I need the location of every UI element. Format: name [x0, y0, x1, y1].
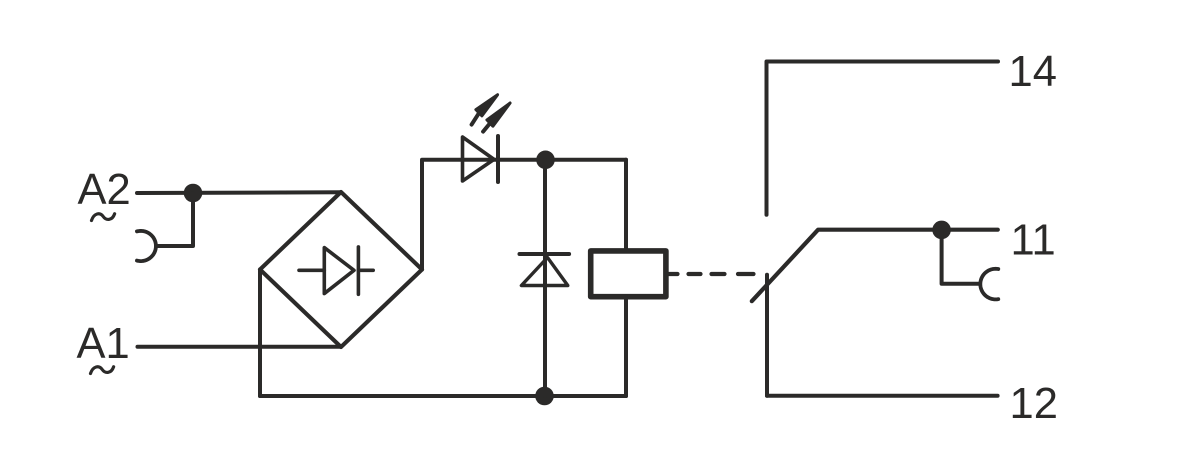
LED: emission arrow 1 tail [472, 113, 479, 124]
wire A2 lead to bridge top vertex [137, 190, 341, 195]
mechanical link dash 2 [689, 272, 701, 276]
wire 11 clamp stub [942, 230, 980, 284]
node bottom junction dot [535, 387, 554, 406]
diode inside bridge: triangle [324, 248, 354, 294]
LED: cathode bar [496, 136, 500, 182]
bridge rectifier diamond [260, 192, 422, 347]
terminal label 12 [1010, 380, 1058, 428]
svg-text:A2: A2 [78, 166, 131, 214]
contact common pole leg from 12 [765, 275, 769, 396]
relay coil K1 [591, 251, 666, 297]
wire terminal 12 line [767, 394, 998, 398]
freewheel diode: triangle [521, 258, 567, 286]
clamp contact at A2 (open arc) [137, 231, 156, 261]
wire bridge plus leg up from right vertex [422, 160, 626, 270]
svg-text:12: 12 [1010, 380, 1058, 428]
svg-text:A1: A1 [77, 320, 130, 368]
mechanical link dash 3 [712, 272, 725, 276]
contact movable lever and terminal 11 line [752, 230, 998, 302]
svg-text:11: 11 [1011, 216, 1056, 264]
AC tilde under A2 [92, 214, 115, 221]
wire bottom rail [260, 394, 626, 398]
node A2 junction dot [184, 184, 203, 203]
LED: triangle [463, 137, 495, 181]
node 11 junction dot [932, 221, 951, 240]
node top junction dot [536, 151, 555, 170]
LED: emission arrow 2 head [487, 103, 510, 126]
wire terminal 14 line and NO fixed contact leg [767, 62, 999, 215]
wire bridge minus leg down from left vertex [258, 270, 262, 397]
mechanical link dash 4 [738, 272, 754, 276]
mechanical link dashed line [668, 272, 678, 276]
wire A1 lead to bridge bottom vertex [138, 345, 342, 349]
wire coil top leg [624, 160, 628, 251]
LED: emission arrow 2 tail [483, 124, 490, 132]
svg-text:14: 14 [1009, 48, 1057, 96]
wire freewheel diode branch vertical [543, 160, 547, 396]
terminal label 11 [1011, 216, 1056, 264]
diode inside bridge: cathode bar [357, 247, 361, 294]
freewheel diode: cathode bar [520, 252, 570, 256]
wire coil bottom leg [624, 297, 628, 396]
diode inside bridge: anode lead [299, 268, 324, 272]
diode inside bridge: cathode lead [358, 268, 373, 272]
terminal label A2 [78, 166, 131, 214]
LED: emission arrow 1 head [476, 95, 498, 116]
clamp contact at 11 (open arc) [980, 269, 998, 300]
wire A2 clamp stub [156, 193, 193, 246]
AC tilde under A1 [91, 367, 114, 374]
terminal label 14 [1009, 48, 1057, 96]
terminal label A1 [77, 320, 130, 368]
